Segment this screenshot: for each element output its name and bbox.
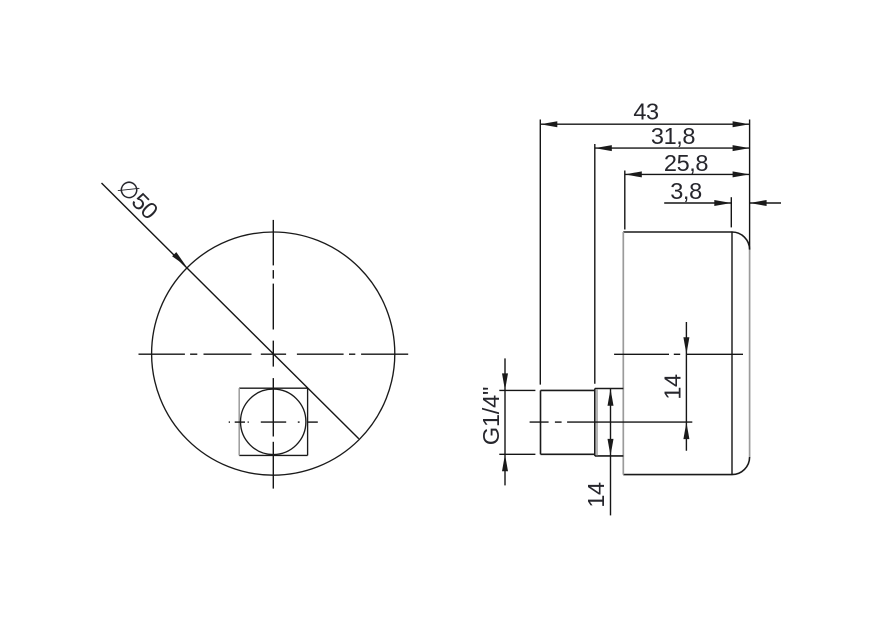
case left edge (gray) <box>622 232 624 475</box>
dimension text Ø50 <box>112 174 163 225</box>
dimension text 43 <box>633 99 659 125</box>
thread circle inside square (front view) <box>241 389 306 454</box>
dimension 14 (centre offset) <box>685 322 687 451</box>
dimension text G1/4" <box>478 387 504 445</box>
dimension 3,8 <box>664 197 781 227</box>
collar / wrench flats (side view) <box>595 389 624 456</box>
gauge case outer circle (front view) <box>152 232 395 475</box>
svg-text:25,8: 25,8 <box>664 150 708 176</box>
dimension text 31,8 <box>651 123 695 149</box>
dimension text 14 (offset) <box>660 374 686 400</box>
case outline (side view) <box>623 232 749 475</box>
bezel tangent edge line <box>731 231 733 474</box>
vertical centerline (front view) <box>272 220 274 489</box>
svg-text:43: 43 <box>633 99 659 125</box>
collar tangent edge (gray) <box>596 389 598 456</box>
dimension 31,8 <box>595 144 750 384</box>
diameter leader line Ø50 <box>102 183 359 439</box>
svg-text:G1/4": G1/4" <box>478 387 504 445</box>
horizontal centerline (front view) <box>139 353 409 355</box>
connection square block (front view) <box>239 388 307 455</box>
svg-text:14: 14 <box>660 374 686 400</box>
svg-text:14: 14 <box>583 482 609 508</box>
stem centerline (side view) <box>530 421 693 423</box>
dimension 14 (stem diameter) <box>610 389 612 516</box>
svg-text:31,8: 31,8 <box>651 123 695 149</box>
square horizontal centerline <box>229 421 318 423</box>
svg-text:3,8: 3,8 <box>670 178 702 204</box>
case horizontal centerline (side view) <box>614 353 743 355</box>
dimension G1/4" <box>499 358 535 485</box>
square left tangent edge (gray) <box>238 388 240 455</box>
thread boss (side view) <box>541 390 595 454</box>
dimension text 25,8 <box>664 150 708 176</box>
dimension text 14 (stem) <box>583 482 609 508</box>
dimension text 3,8 <box>670 178 702 204</box>
dimension 43 <box>540 120 749 385</box>
svg-text:∅50: ∅50 <box>112 174 163 225</box>
dimension 25,8 <box>625 171 750 230</box>
arrowhead of Ø50 leader <box>172 252 186 266</box>
case right silhouette edge (gray) <box>749 250 751 457</box>
